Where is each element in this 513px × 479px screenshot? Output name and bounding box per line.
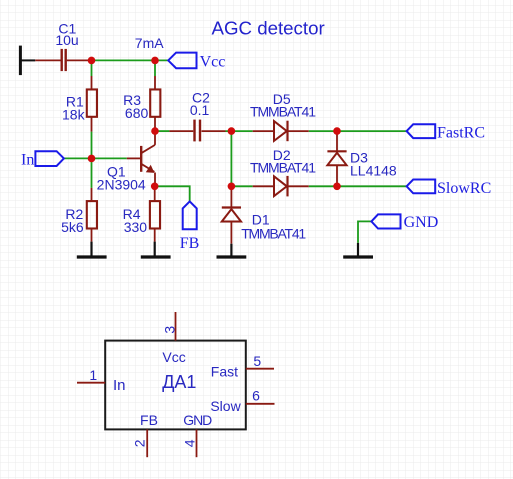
svg-text:In: In [113,377,126,394]
wire collector node to C2 [155,130,169,132]
wire R1 bottom to In rail [91,132,93,159]
svg-text:TMMBAT41: TMMBAT41 [241,225,306,241]
svg-text:In: In [21,152,34,169]
transistor Q1 [97,131,155,192]
svg-text:GND: GND [183,412,212,428]
node A junction C2 D5 D2 [228,127,236,135]
svg-text:LL4148: LL4148 [350,162,397,178]
pin 5 Fast [246,368,274,370]
terminal input bar [20,46,35,76]
svg-text:6: 6 [252,388,260,404]
net label FB [180,201,200,252]
node Vcc R3 junction [151,57,159,65]
resistor R3 [123,76,160,131]
svg-text:1: 1 [89,367,97,383]
node B junction D2 D1 [228,183,236,191]
svg-text:Fast: Fast [211,364,238,380]
pin 2 FB [146,429,148,457]
wire In rail down to R2 [91,158,93,188]
svg-text:TMMBAT41: TMMBAT41 [250,103,316,119]
net label GND [371,214,438,231]
svg-text:5: 5 [253,353,261,369]
pin 1 In [77,382,105,384]
svg-text:FastRC: FastRC [437,125,485,142]
svg-text:5k6: 5k6 [61,219,84,235]
svg-text:Vcc: Vcc [162,349,185,365]
svg-text:GND: GND [404,214,439,231]
wire In rail [64,157,127,159]
diode D1 [222,186,307,243]
net label SlowRC [407,180,492,198]
svg-text:4: 4 [182,439,198,447]
node C1 R1 junction [88,57,96,65]
node In base junction [88,155,96,163]
wire GND label to ground [358,221,371,243]
net label Vcc [168,53,225,71]
ground under R2 [77,242,107,257]
pin 3 Vcc [175,312,177,341]
wire junction to R1 top [91,60,93,76]
svg-text:AGC detector: AGC detector [212,17,325,38]
svg-text:SlowRC: SlowRC [437,180,491,197]
wire Vcc junction to R3 top [154,60,156,76]
svg-text:Slow: Slow [210,398,241,414]
svg-text:10u: 10u [55,32,78,48]
IC DA1 block body [77,312,275,457]
pin 4 GND [196,429,198,457]
ground at GND label [343,243,373,257]
net label FastRC [407,124,485,141]
svg-text:2N3904: 2N3904 [97,176,146,192]
node collector C2 junction [151,127,159,135]
resistor R1 [62,76,97,132]
ground under D1 [217,244,247,257]
wire D5 cathode to FastRC node [309,130,337,132]
wire FastRC node to label [337,130,407,132]
resistor R4 [123,186,160,241]
wire SlowRC node to label [337,185,407,187]
wire C2 to node A [226,130,253,132]
svg-text:7mA: 7mA [135,35,164,51]
diode D5 [250,91,316,141]
wire top rail C1 to Vcc [92,59,169,61]
svg-text:330: 330 [124,219,148,235]
svg-text:ДА1: ДА1 [162,372,196,392]
diode D3 [327,131,397,186]
svg-text:2: 2 [131,439,147,447]
svg-text:FB: FB [180,235,200,252]
node FastRC junction D5 D3 [333,127,341,135]
node emitter R4 FB junction [151,183,159,191]
wire node B to D2 anode [231,185,252,187]
ground under R4 [141,242,171,257]
svg-text:Vcc: Vcc [200,53,226,70]
diode D2 [250,147,316,197]
net label In [21,151,64,168]
svg-text:18k: 18k [62,107,86,123]
svg-text:680: 680 [125,105,149,121]
svg-text:FB: FB [140,412,158,428]
wire emitter node to FB label [155,186,190,201]
wire node A down to node B [230,131,232,186]
capacitor C1 [35,21,91,72]
node SlowRC junction D2 D3 [333,183,341,191]
pin 6 Slow [246,403,275,405]
svg-text:0.1: 0.1 [190,102,210,118]
capacitor C2 [169,90,225,142]
svg-text:3: 3 [161,326,177,334]
svg-text:TMMBAT41: TMMBAT41 [250,159,316,175]
resistor R2 [61,188,97,242]
wire D2 cathode to SlowRC node [309,185,337,187]
